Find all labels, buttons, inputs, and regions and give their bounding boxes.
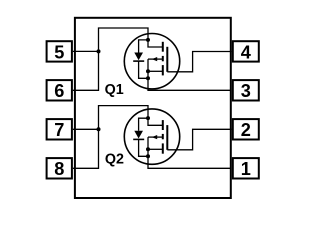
svg-text:6: 6 xyxy=(54,81,64,101)
svg-text:2: 2 xyxy=(241,120,251,140)
svg-text:5: 5 xyxy=(54,42,64,62)
svg-text:Q1: Q1 xyxy=(105,82,124,98)
svg-text:1: 1 xyxy=(241,159,251,179)
svg-text:8: 8 xyxy=(54,159,64,179)
svg-text:3: 3 xyxy=(241,81,251,101)
svg-text:7: 7 xyxy=(54,120,64,140)
svg-text:Q2: Q2 xyxy=(105,151,124,167)
svg-text:4: 4 xyxy=(241,42,252,62)
